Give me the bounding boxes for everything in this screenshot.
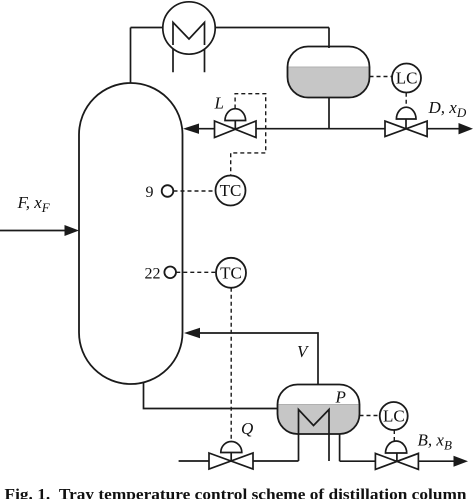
dashed line: tray 9 sensor to TC1: [174, 190, 216, 192]
reflux drum liquid fill: [288, 67, 370, 98]
controller TC1: [216, 176, 246, 206]
valve Q body: [209, 453, 253, 469]
dashed control line: TC2 to valve Q: [230, 288, 232, 442]
arrow: vapor into column: [184, 328, 200, 338]
arrow: bottoms product: [454, 456, 469, 467]
valve D body: [385, 121, 427, 136]
svg-text:Fig. 1. Tray temperature cont: Fig. 1. Tray temperature control scheme …: [5, 487, 467, 499]
valve L body: [215, 121, 257, 138]
wire: reflux drum outlet: [328, 98, 330, 129]
dashed control line: LC1 to valve D: [405, 93, 407, 108]
valve L stem: [234, 121, 236, 130]
svg-text:LC: LC: [396, 69, 418, 88]
svg-text:Q: Q: [241, 419, 253, 438]
valve B stem: [396, 453, 398, 461]
arrow: distillate product: [459, 123, 474, 134]
svg-text:V: V: [297, 342, 310, 361]
wire: feed line: [0, 230, 66, 232]
svg-text:TC: TC: [220, 263, 242, 282]
reflux drum vessel: [288, 47, 370, 98]
column vessel: [79, 83, 183, 384]
reboiler liquid surface: [278, 404, 360, 406]
svg-text:P: P: [335, 388, 346, 407]
wire: condenser inlet line: [131, 27, 164, 29]
reflux drum liquid surface: [288, 66, 370, 68]
controller LC2: [380, 402, 408, 430]
svg-text:LC: LC: [383, 407, 405, 426]
dashed control line: TC1 to valve L: [231, 94, 266, 176]
tray 9 sensor node: [162, 185, 174, 197]
svg-text:22: 22: [145, 266, 161, 283]
svg-text:9: 9: [146, 184, 154, 201]
valve L actuator dome: [225, 109, 246, 121]
condenser coil M (inside circle): [173, 22, 205, 45]
dashed line: tray 22 sensor to TC2: [176, 271, 216, 273]
valve D actuator dome: [396, 107, 416, 119]
dashed line: reflux drum to LC1: [370, 76, 392, 78]
wire: reboiler bottoms outlet: [339, 434, 341, 461]
controller LC1: [392, 64, 421, 93]
svg-text:L: L: [214, 94, 224, 113]
svg-text:D, xD: D, xD: [428, 98, 467, 120]
reboiler liquid fill: [278, 405, 360, 435]
wire: reflux / distillate line: [186, 128, 460, 130]
condenser coil legs: [173, 22, 205, 72]
valve B actuator dome: [386, 441, 407, 453]
wire: boilup vapor return line: [199, 333, 318, 385]
valve Q actuator dome: [221, 442, 242, 453]
tray 22 sensor node: [164, 267, 176, 279]
valve D stem: [405, 119, 407, 129]
svg-text:F, xF: F, xF: [17, 193, 51, 215]
svg-text:TC: TC: [220, 181, 242, 200]
wire: condenser outlet line: [215, 27, 329, 29]
dashed control line: LC2 to valve B: [393, 430, 395, 443]
wire: column overhead vapor riser: [130, 28, 132, 91]
wire: steam line to reboiler: [179, 460, 299, 462]
arrow: feed into column: [65, 225, 80, 236]
valve B body: [375, 453, 418, 469]
reboiler heating coil: [299, 410, 330, 462]
controller TC2: [216, 258, 246, 288]
svg-text:B, xB: B, xB: [418, 431, 452, 453]
valve Q stem: [230, 453, 232, 462]
condenser circle: [163, 2, 215, 54]
dashed line: reboiler to LC2: [360, 415, 380, 417]
wire: column bottoms to reboiler: [144, 383, 278, 409]
wire: bottoms product line: [340, 460, 460, 462]
reboiler vessel: [278, 385, 360, 435]
wire: reflux drum inlet: [328, 28, 330, 49]
arrow: reflux into column: [183, 124, 199, 134]
